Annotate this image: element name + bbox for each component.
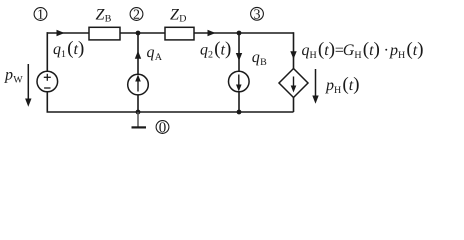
wire qB branch upper bbox=[238, 33, 240, 71]
label pH(t) right of equals bbox=[389, 42, 423, 59]
arrow pW down bbox=[25, 64, 31, 107]
wire qB branch lower bbox=[238, 92, 240, 112]
label q2(t) bbox=[201, 41, 231, 58]
arrow q2 on top wire bbox=[208, 30, 216, 36]
node 0 label bbox=[156, 121, 169, 134]
wire top segment ZD to right corner bbox=[194, 32, 294, 34]
wire top segment node1 to ZB bbox=[47, 32, 90, 34]
junction node 2 dot bbox=[136, 31, 141, 36]
arrow qH on branch bbox=[290, 51, 296, 59]
junction qB top dot bbox=[237, 31, 242, 36]
impedance ZD bbox=[165, 9, 194, 40]
multiplication dot bbox=[385, 49, 387, 51]
wire left branch upper bbox=[46, 32, 48, 71]
label pH(t) under formula bbox=[325, 77, 359, 94]
label q1(t) bbox=[54, 41, 84, 58]
current source qA circle with up arrow bbox=[128, 74, 149, 95]
wire middle branch upper bbox=[137, 33, 139, 74]
wire top segment ZB to ZD bbox=[120, 32, 165, 34]
equals sign bbox=[336, 48, 343, 52]
node 2 label bbox=[130, 8, 143, 21]
controlled source qH diamond bbox=[279, 69, 308, 98]
impedance ZB bbox=[89, 9, 120, 40]
ground bbox=[132, 112, 147, 127]
arrow qB on branch bbox=[236, 53, 242, 61]
wire right branch lower bbox=[293, 98, 295, 113]
node 1 label bbox=[34, 8, 47, 21]
wire right branch upper bbox=[293, 32, 295, 68]
arrow pH down bbox=[312, 69, 318, 104]
label pW bbox=[4, 72, 23, 83]
current source qB circle with down arrow bbox=[229, 71, 250, 92]
junction qB bottom dot bbox=[237, 110, 242, 115]
junction ground dot bbox=[136, 110, 141, 115]
label qH(t) bbox=[302, 42, 334, 59]
arrow q1 on top wire bbox=[57, 30, 65, 36]
label qB bbox=[252, 54, 266, 65]
source pW pressure source with plus minus bbox=[37, 71, 58, 92]
wire bottom rail bbox=[47, 111, 294, 113]
wire middle branch lower bbox=[137, 95, 139, 112]
wire left branch lower bbox=[46, 92, 48, 112]
arrow qA on branch bbox=[135, 51, 141, 59]
label GH(t) bbox=[344, 42, 379, 59]
node 3 label bbox=[251, 7, 264, 20]
label qA bbox=[147, 49, 162, 60]
